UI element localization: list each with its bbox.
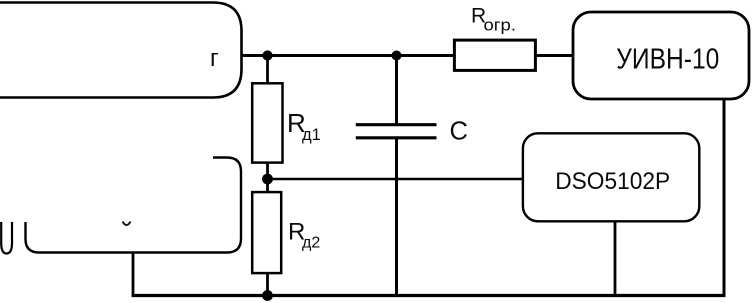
resistor Rд1 [252,83,282,162]
block УИВН-10 [573,12,749,99]
wire (top bus from source box to Rогр) [242,54,455,57]
block DSO5102P [523,133,699,221]
svg-text:д2: д2 [302,235,320,252]
svg-text:огр.: огр. [484,16,517,35]
load box (bottom-left, partially drawn) [26,158,242,253]
label ˘ (inside load box) [123,222,131,226]
svg-text:УИВН-10: УИВН-10 [616,44,719,76]
node junction dot (ground rail) [262,290,273,301]
wire (mid junction to DSO5102P) [268,178,524,181]
svg-text:д1: д1 [302,126,321,144]
svg-text:DSO5102P: DSO5102P [555,168,670,195]
wire (mid junction to Rд2 top) [266,179,269,193]
wire (junction to Rд1 top) [266,56,269,84]
node junction dot (top of Rд1) [262,50,272,60]
wire (capacitor top lead) [395,56,398,125]
wire (УИВН-10 bottom down to ground rail) [723,99,726,296]
wire (Rд2 bottom to ground rail) [266,273,269,296]
label Rд2 [288,219,320,252]
label Rогр. [471,5,516,35]
resistor Rд2 [252,192,281,273]
resistor Rогр [454,40,535,70]
svg-text:C: C [450,118,468,146]
wire (load box bottom to ground rail) [132,253,135,296]
capacitor C plates [356,125,437,138]
wire (Rд1 bottom to mid junction) [266,163,269,180]
wire (ground rail) [132,294,726,297]
wire (Rогр to УИВН-10) [535,54,573,57]
node junction dot (between Rд1 and Rд2) [262,174,273,185]
label Rд1 [287,108,321,144]
svg-text:г: г [210,45,219,72]
source box (top-left, clipped at image edge) [0,3,242,98]
wire (capacitor bottom lead down to ground rail) [395,138,398,296]
wire (DSO5102P bottom down to ground rail) [614,221,617,295]
node junction dot (top of capacitor) [392,51,402,61]
clipped shape (bottom-left image edge, U curve) [1,222,12,254]
